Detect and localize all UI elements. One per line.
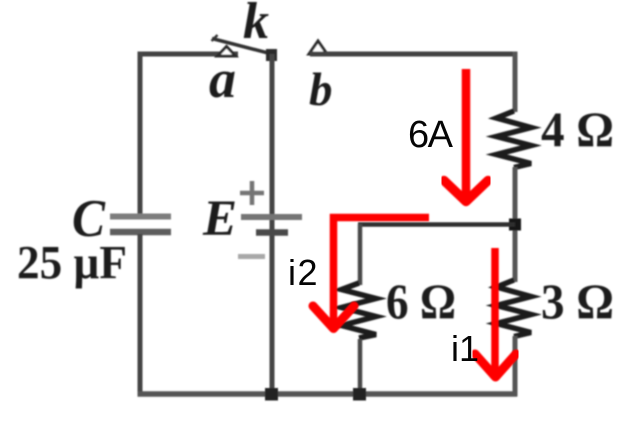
svg-text:6A: 6A: [408, 114, 454, 156]
svg-text:k: k: [243, 0, 269, 50]
svg-text:a: a: [209, 49, 236, 109]
battery E short plate: [256, 229, 288, 236]
capacitor C top plate: [110, 214, 171, 220]
wire right vertical middle: [513, 167, 518, 282]
svg-text:b: b: [309, 64, 333, 116]
battery E long plate: [241, 214, 302, 220]
switch contact a: [218, 47, 236, 57]
battery minus sign: [238, 254, 265, 259]
svg-text:6 Ω: 6 Ω: [386, 273, 456, 329]
current arrow 6A: [444, 69, 488, 202]
capacitor C bottom plate: [110, 229, 171, 236]
switch blade end tick: [212, 35, 218, 41]
wire middle horizontal: [358, 222, 515, 227]
svg-text:3 Ω: 3 Ω: [541, 273, 614, 329]
resistor R2 6 ohm zigzag: [342, 283, 377, 338]
wire left vertical upper: [138, 52, 143, 216]
svg-text:E: E: [202, 191, 237, 247]
resistor R3 3 ohm zigzag: [497, 280, 532, 337]
wire top-right horizontal: [310, 52, 517, 57]
wire 6-ohm branch vertical lower: [358, 339, 363, 397]
svg-text:25 µF: 25 µF: [17, 237, 127, 290]
wire right vertical top: [513, 52, 518, 113]
node junction dot bottom 6-ohm branch: [353, 388, 366, 401]
switch k blade: [212, 39, 272, 55]
current arrow i1: [475, 248, 516, 377]
wire left vertical lower: [138, 234, 143, 397]
switch pivot junction dot: [266, 49, 277, 61]
current arrow i2 (down left branch with horizontal lead): [313, 218, 429, 329]
switch contact b: [309, 41, 327, 54]
wire 6-ohm branch vertical upper: [358, 224, 363, 285]
wire top-left horizontal: [138, 52, 238, 57]
svg-text:i1: i1: [451, 328, 479, 369]
wire bottom horizontal: [138, 391, 518, 397]
svg-text:i2: i2: [288, 252, 319, 293]
svg-text:4 Ω: 4 Ω: [541, 101, 614, 157]
resistor R1 4 ohm zigzag: [497, 111, 532, 168]
battery plus sign: [240, 181, 264, 205]
node junction dot bottom battery branch: [265, 388, 278, 401]
node junction dot right: [509, 219, 521, 231]
wire right vertical bottom: [513, 336, 518, 397]
wire middle vertical upper (battery branch): [270, 54, 275, 397]
